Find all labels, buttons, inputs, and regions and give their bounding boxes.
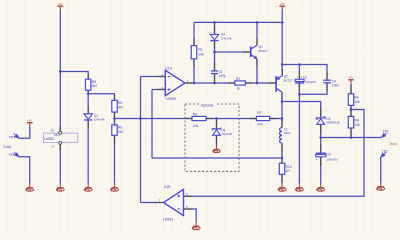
svg-text:1N4148: 1N4148 xyxy=(221,132,232,136)
wire R9 bottom to ground xyxy=(114,135,116,184)
svg-text:TP1: TP1 xyxy=(383,130,389,134)
svg-text:1N4148: 1N4148 xyxy=(221,36,232,40)
svg-text:4-: 4- xyxy=(52,145,55,149)
capacitor C1 100p xyxy=(211,70,218,72)
wire R3 bottom to node xyxy=(87,90,89,94)
svg-text:R7: R7 xyxy=(257,111,261,115)
svg-text:+5V: +5V xyxy=(348,76,353,80)
wire top rail xyxy=(194,21,282,23)
svg-text:+3V: +3V xyxy=(27,118,32,122)
resistor R1 10k xyxy=(191,46,196,59)
wire R6 to R7 xyxy=(206,118,256,120)
svg-text:220u: 220u xyxy=(284,131,291,135)
wire R7 to switch node xyxy=(270,118,282,120)
ground R10 xyxy=(281,184,283,188)
svg-text:LM393: LM393 xyxy=(163,218,173,222)
svg-text:4k7: 4k7 xyxy=(118,105,124,109)
resistor R6 10k xyxy=(192,116,206,120)
svg-text:TP2: TP2 xyxy=(382,150,388,154)
diode D4 1N4148 xyxy=(210,34,219,39)
wire U1B pin6 to ground xyxy=(184,209,197,222)
wire D6 anode to ground xyxy=(216,135,218,146)
test point TP3 xyxy=(15,134,19,138)
wire C3 bottom to ground xyxy=(320,157,322,184)
wire L1 bottom to R10 xyxy=(281,143,283,163)
svg-text:+: + xyxy=(316,157,318,161)
transistor Q2 BC327 PNP xyxy=(275,76,277,92)
wire ref node to R6 xyxy=(115,118,193,120)
wire D6 from ref node xyxy=(216,119,218,129)
ground U1C pin4 xyxy=(59,184,61,188)
svg-text:100n: 100n xyxy=(332,83,339,87)
ground D2 xyxy=(87,184,89,188)
resistor R10 1R xyxy=(279,163,284,174)
svg-text:100u/6V: 100u/6V xyxy=(305,80,316,84)
svg-text:BC327: BC327 xyxy=(284,78,294,82)
svg-text:10k: 10k xyxy=(193,124,199,128)
zener diode D6 1N4148 optional xyxy=(212,127,220,130)
wire C2 bottom to ground xyxy=(298,83,300,184)
wire power P2 down to Q2 emitter xyxy=(281,10,283,76)
svg-text:U1B: U1B xyxy=(164,185,171,189)
svg-text:U1A: U1A xyxy=(165,67,172,71)
wire D4 anode from rail xyxy=(214,22,216,34)
pin stubs dark overlay xyxy=(59,126,61,132)
test point TP4 xyxy=(15,153,19,157)
svg-text:LM393: LM393 xyxy=(165,97,175,101)
inductor L1 220u xyxy=(280,128,282,144)
resistor R9 2k2 xyxy=(112,125,117,135)
wire TP2 to ground xyxy=(380,157,382,183)
svg-text:100u/6V: 100u/6V xyxy=(327,158,338,162)
svg-text:8+: 8+ xyxy=(51,129,55,133)
resistor R3 2k2 xyxy=(86,79,91,90)
capacitor C4 100n xyxy=(323,79,331,81)
resistor R2 1k xyxy=(235,81,246,85)
wire R5 bottom through ref node to R9 top xyxy=(114,112,116,125)
resistor R8 10k xyxy=(348,116,353,128)
schottky diode D3 MBRS140 xyxy=(316,117,325,120)
wire VCC rail to C4 xyxy=(282,65,327,81)
svg-text:LM393: LM393 xyxy=(44,137,54,141)
wire TP3 to battery plus xyxy=(19,126,30,138)
svg-text:1k: 1k xyxy=(236,86,240,90)
wire pin3 vertical xyxy=(151,90,153,159)
svg-text:MBRS140: MBRS140 xyxy=(326,121,340,125)
wire node to R5 top xyxy=(88,94,114,101)
capacitor C3 100u polarized xyxy=(316,152,326,154)
svg-text:10k: 10k xyxy=(354,100,360,104)
svg-text:+3V: +3V xyxy=(280,2,285,6)
svg-text:1N4148: 1N4148 xyxy=(94,118,105,122)
ground C2 xyxy=(298,184,300,188)
svg-text:R6: R6 xyxy=(193,113,197,117)
op-amp U1B LM393 mirrored xyxy=(164,189,184,215)
IC power U1C LM393 pins 8 and 4 xyxy=(44,133,78,142)
svg-text:1R: 1R xyxy=(286,169,291,173)
svg-text:10k: 10k xyxy=(198,52,204,56)
ground TP2 xyxy=(380,183,382,187)
svg-text:+C2: +C2 xyxy=(301,76,307,80)
wire Q1 base xyxy=(215,51,250,53)
resistor R5 4k7 xyxy=(112,100,117,112)
op-amp U1A LM393 xyxy=(165,70,185,95)
svg-text:2k2: 2k2 xyxy=(92,84,98,88)
svg-text:R8: R8 xyxy=(354,118,358,122)
svg-text:BC107: BC107 xyxy=(259,49,269,53)
wire switch node to D3 xyxy=(282,102,321,118)
resistor R7 47k xyxy=(256,116,269,120)
wire U1A pin3 xyxy=(152,89,165,91)
wire to R3 top xyxy=(60,72,88,80)
resistor R4 10k xyxy=(348,94,353,106)
wire Q1 collector to rail xyxy=(256,22,258,45)
wire Q2 collector to L1 xyxy=(281,92,283,127)
wire D4 cathode to C1 to output bus xyxy=(214,41,216,71)
wire node to D2 xyxy=(87,94,89,114)
svg-text:TP3: TP3 xyxy=(9,135,15,139)
ground U1B pin6 xyxy=(195,222,197,226)
wire TP4 to ground xyxy=(19,157,30,184)
wire R8 bottom to Vout node xyxy=(350,128,352,138)
wire Vout node to TP1 xyxy=(321,137,382,139)
optional dashed box xyxy=(185,104,239,171)
wire U1A pin2 vertical to U1B out xyxy=(140,77,142,203)
ground battery minus xyxy=(29,184,31,188)
ground D6 optional xyxy=(216,146,218,149)
wire R1 top lead xyxy=(193,22,195,45)
wire D3 to C3 xyxy=(320,125,322,153)
svg-text:2k2: 2k2 xyxy=(118,130,124,134)
wire Q1 emitter to output bus xyxy=(256,59,258,83)
diode D2 1N4148 xyxy=(84,114,93,119)
wire R4 to R8 xyxy=(350,105,352,116)
wire feedback to U1B pin5 xyxy=(184,110,365,197)
svg-text:Vout: Vout xyxy=(390,142,397,146)
test point TP2 xyxy=(381,153,385,157)
svg-text:R10: R10 xyxy=(286,165,292,169)
wire VCC column left xyxy=(59,10,61,132)
wire R2 to Q2 base xyxy=(245,82,275,84)
wire D2 cathode to ground xyxy=(87,121,89,184)
svg-text:2xAA: 2xAA xyxy=(3,145,12,149)
wire R10 bottom to ground xyxy=(281,174,283,184)
test point TP1 xyxy=(382,134,386,138)
wire U1A output bus xyxy=(185,82,235,84)
wire to U1A pin2 xyxy=(141,76,166,78)
wire U1B pin7 output xyxy=(141,202,157,204)
ground C3 xyxy=(320,184,322,188)
svg-text:R4: R4 xyxy=(354,96,358,100)
svg-text:C3: C3 xyxy=(327,152,331,156)
wire C4 bottom xyxy=(299,83,327,94)
svg-text:R1: R1 xyxy=(198,48,202,52)
wire C2 top lead xyxy=(298,65,300,80)
svg-text:+3V: +3V xyxy=(58,2,63,6)
svg-text:10k: 10k xyxy=(354,123,360,127)
capacitor C2 100u polarized xyxy=(295,79,304,81)
wire P4 to R4 xyxy=(350,84,352,94)
wire current sense to U1A pin3 xyxy=(152,157,282,159)
transistor Q1 BC107 NPN xyxy=(250,47,252,58)
junction dots xyxy=(59,70,62,73)
svg-text:R2: R2 xyxy=(236,77,240,81)
svg-text:100p: 100p xyxy=(219,74,226,78)
wire R1 bottom to output bus xyxy=(193,59,195,83)
svg-text:47k: 47k xyxy=(257,122,263,126)
svg-text:TP4: TP4 xyxy=(9,153,15,157)
ground R9 xyxy=(114,184,116,188)
svg-text:Optional: Optional xyxy=(201,104,214,108)
wire U1C pin4 to ground xyxy=(59,144,61,184)
